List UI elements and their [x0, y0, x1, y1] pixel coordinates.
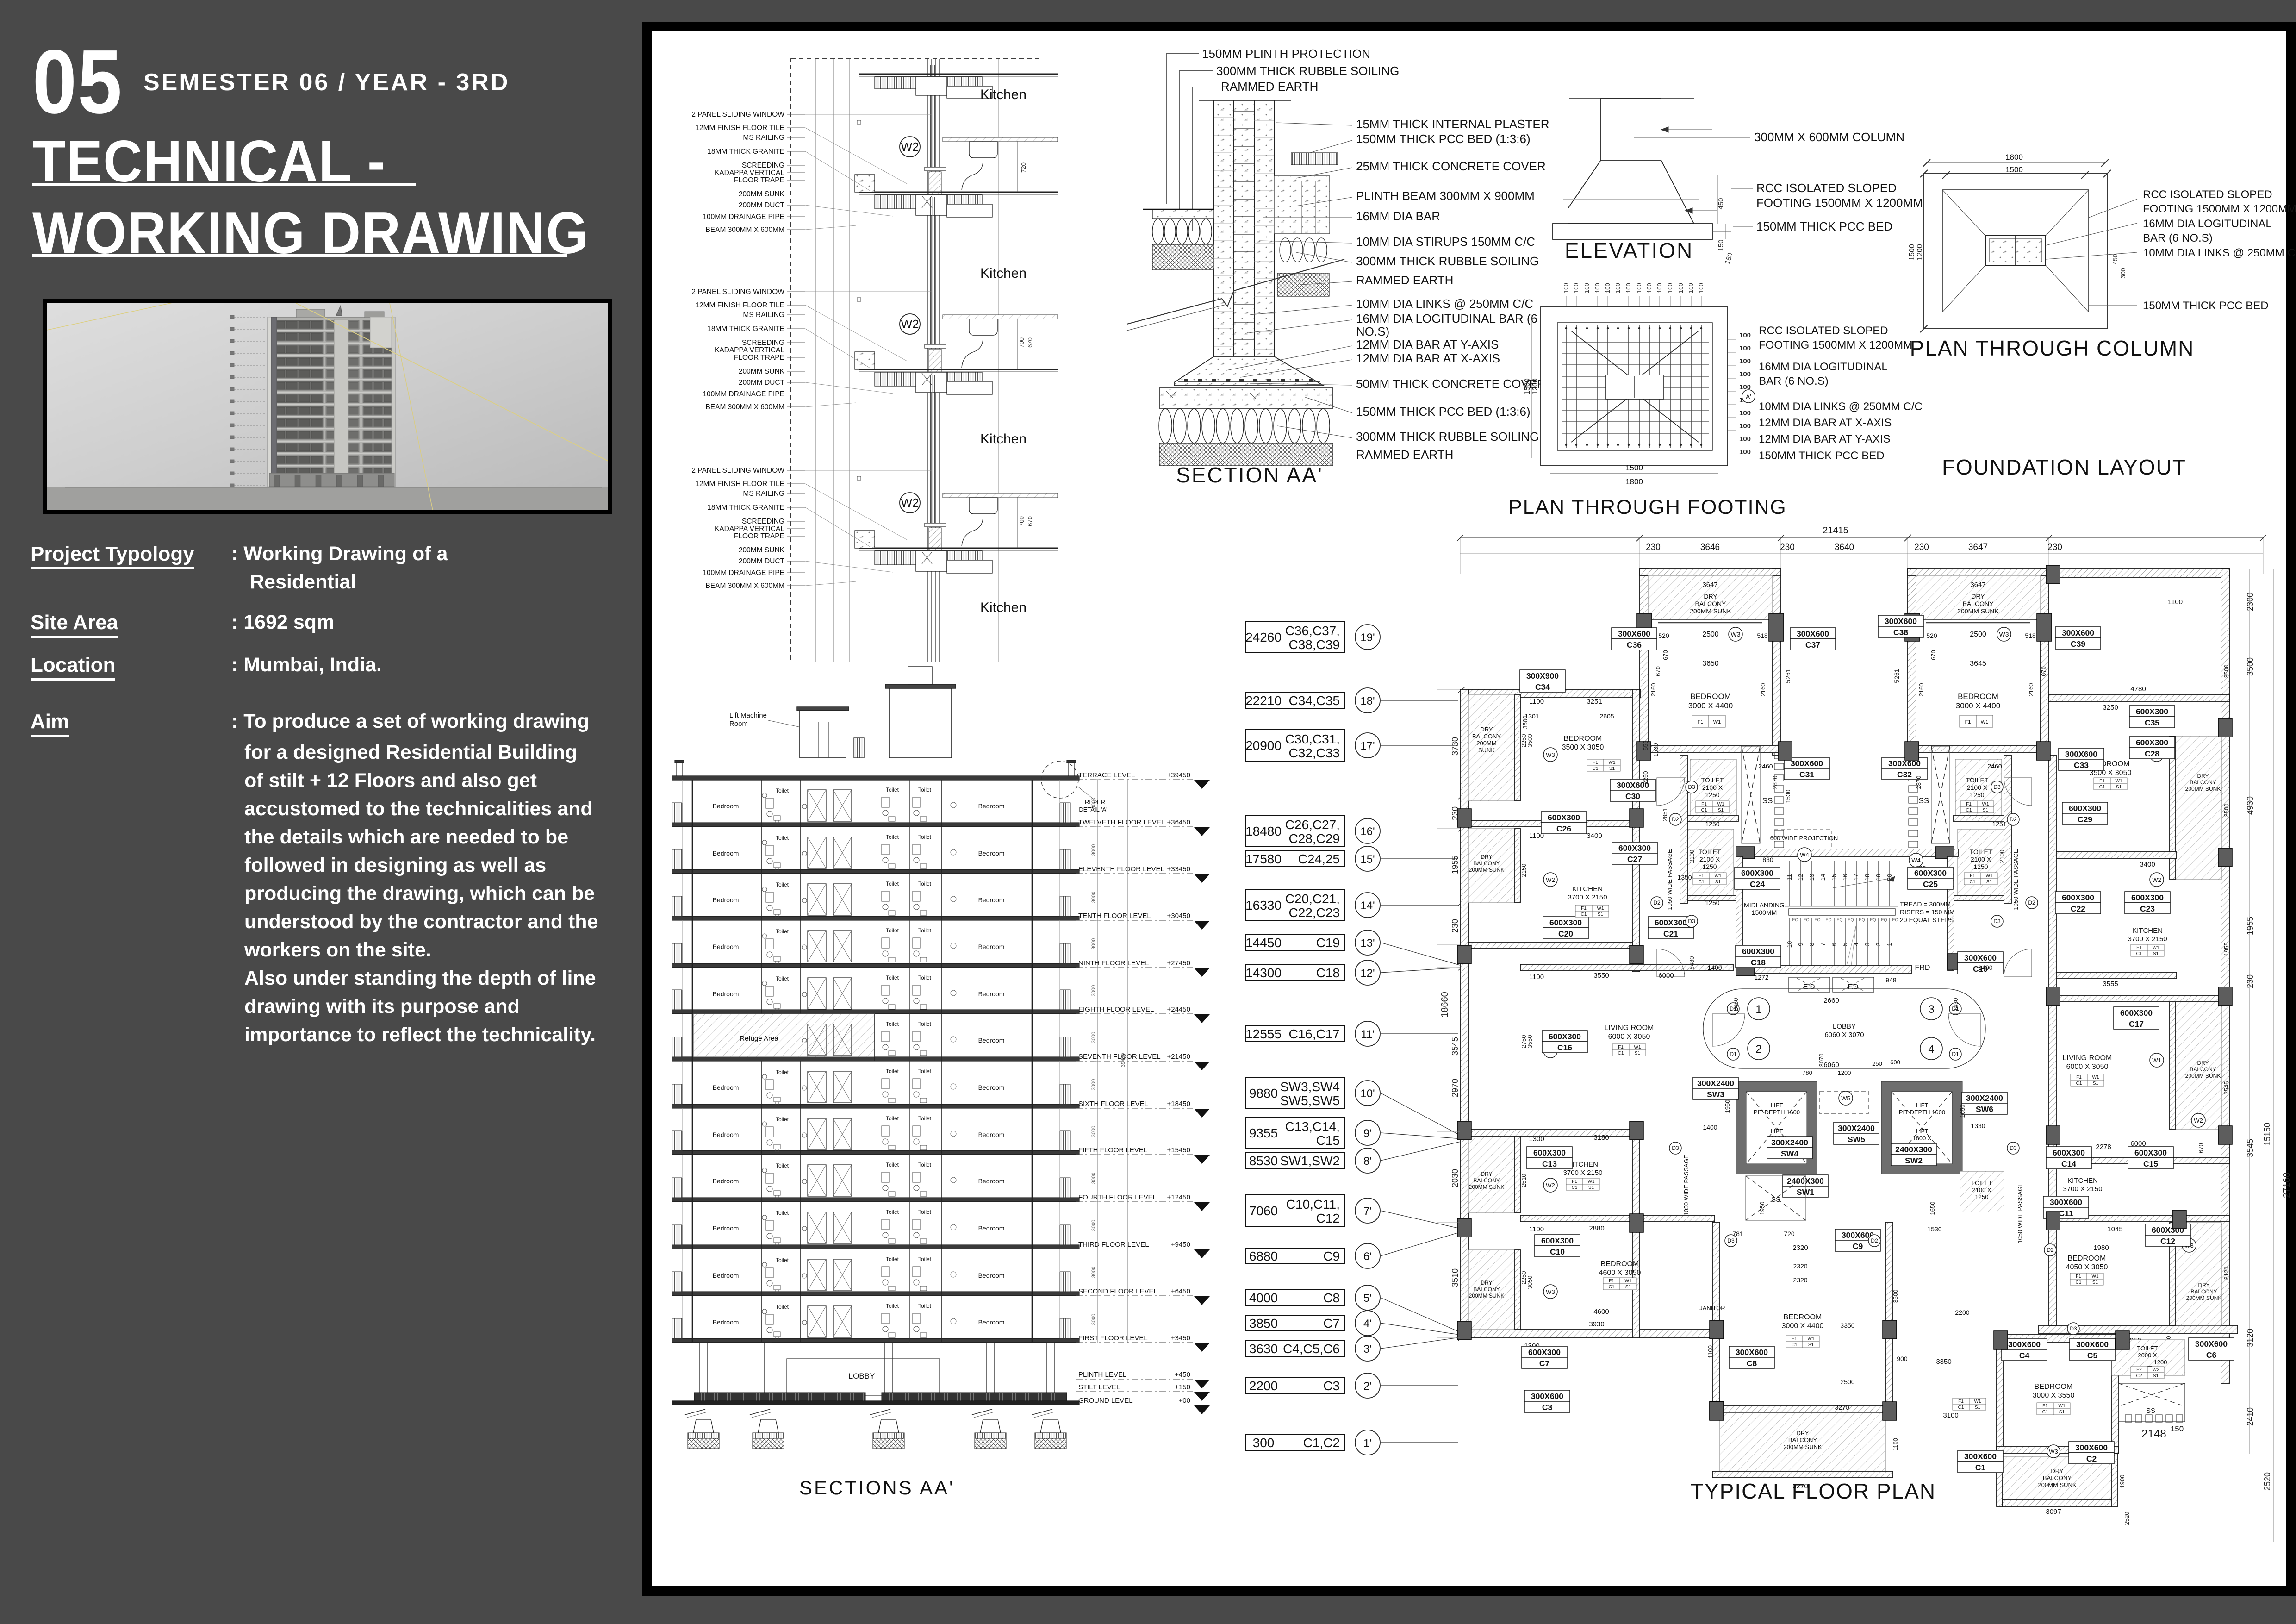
svg-text:PLAN THROUGH FOOTING: PLAN THROUGH FOOTING — [1508, 496, 1786, 518]
svg-text:300MM X 600MM COLUMN: 300MM X 600MM COLUMN — [1754, 130, 1904, 144]
svg-text:W4: W4 — [1800, 851, 1809, 858]
svg-text:100: 100 — [1604, 283, 1611, 293]
svg-text:1955: 1955 — [2246, 917, 2255, 935]
svg-text:EQ: EQ — [1881, 918, 1887, 922]
svg-text:12: 12 — [1797, 874, 1804, 881]
svg-text:25MM THICK CONCRETE COVER: 25MM THICK CONCRETE COVER — [1356, 159, 1546, 173]
svg-text:GROUND LEVEL: GROUND LEVEL — [1078, 1397, 1133, 1405]
svg-text:2450: 2450 — [1732, 998, 1739, 1012]
svg-text:LIFT: LIFT — [1771, 1128, 1783, 1135]
svg-text:F2: F2 — [2136, 1368, 2142, 1373]
svg-text:3400: 3400 — [2140, 861, 2155, 868]
svg-text:+450: +450 — [1175, 1371, 1190, 1379]
svg-text:230: 230 — [1780, 543, 1795, 552]
svg-text:C6: C6 — [2206, 1350, 2217, 1360]
svg-text:F1: F1 — [2076, 1075, 2082, 1080]
svg-text:Bedroom: Bedroom — [713, 943, 739, 950]
svg-text:3000 X 4400: 3000 X 4400 — [1782, 1322, 1824, 1330]
svg-text:1400: 1400 — [1703, 1124, 1717, 1131]
svg-text:7060: 7060 — [1249, 1204, 1278, 1218]
svg-text:C1: C1 — [1581, 912, 1587, 917]
svg-text:1530: 1530 — [1785, 790, 1792, 803]
svg-text:17580: 17580 — [1245, 852, 1282, 866]
svg-text:W1: W1 — [1808, 1337, 1815, 1342]
svg-text:C16: C16 — [1557, 1043, 1572, 1052]
svg-text:Bedroom: Bedroom — [713, 1272, 739, 1279]
svg-text:300X600: 300X600 — [1531, 1392, 1563, 1401]
svg-text:Bedroom: Bedroom — [978, 1131, 1005, 1138]
svg-text:S1: S1 — [1598, 912, 1604, 917]
svg-text:3000: 3000 — [1091, 1267, 1096, 1278]
svg-text:TOILET: TOILET — [1966, 776, 1989, 784]
svg-text:1': 1' — [1363, 1437, 1372, 1449]
svg-text:670: 670 — [1027, 516, 1033, 526]
svg-text:2880: 2880 — [1589, 1224, 1604, 1232]
svg-text:4930: 4930 — [2246, 796, 2255, 815]
svg-text:C1: C1 — [1572, 1185, 1578, 1190]
svg-text:1650: 1650 — [1959, 1105, 1966, 1118]
svg-text:3500: 3500 — [1526, 734, 1533, 748]
svg-text:C24,25: C24,25 — [1298, 852, 1340, 866]
svg-text:RCC ISOLATED SLOPED: RCC ISOLATED SLOPED — [2143, 188, 2272, 201]
svg-text:1800: 1800 — [1625, 477, 1643, 486]
svg-text:S1: S1 — [1986, 880, 1992, 885]
svg-text:Toilet: Toilet — [886, 974, 899, 981]
svg-text:W1: W1 — [2116, 779, 2122, 784]
svg-text:C1: C1 — [2042, 1410, 2048, 1415]
svg-text:2278: 2278 — [2096, 1143, 2111, 1151]
svg-text:2970: 2970 — [1450, 1079, 1460, 1097]
svg-text:S1: S1 — [2153, 1374, 2159, 1379]
svg-text:15: 15 — [1830, 874, 1837, 881]
svg-text:1100: 1100 — [1707, 1345, 1714, 1358]
svg-text:FIFTH FLOOR LEVEL: FIFTH FLOOR LEVEL — [1078, 1146, 1147, 1154]
svg-text:S1: S1 — [1588, 1185, 1594, 1190]
svg-text:3545: 3545 — [2246, 1139, 2255, 1157]
svg-text:F1: F1 — [1572, 1179, 1577, 1184]
svg-text:2160: 2160 — [1760, 683, 1767, 697]
svg-text:1050 WIDE PASSAGE: 1050 WIDE PASSAGE — [2012, 849, 2019, 910]
svg-text:S1: S1 — [1808, 1343, 1814, 1348]
svg-text:Toilet: Toilet — [776, 975, 789, 982]
svg-text:948: 948 — [1885, 976, 1897, 984]
svg-text:600X300: 600X300 — [1548, 813, 1580, 822]
svg-text:C20,C21,: C20,C21, — [1285, 892, 1340, 906]
svg-text:1100: 1100 — [2168, 598, 2183, 606]
svg-text:KITCHEN: KITCHEN — [2132, 927, 2163, 935]
svg-text:F1: F1 — [2076, 1274, 2081, 1279]
svg-text:2 PANEL SLIDING WINDOW: 2 PANEL SLIDING WINDOW — [691, 288, 784, 296]
svg-text:D3: D3 — [2010, 1145, 2017, 1151]
svg-text:3000 X 3550: 3000 X 3550 — [2033, 1392, 2075, 1399]
svg-text:1250: 1250 — [1973, 863, 1988, 870]
svg-text:S1: S1 — [1625, 1285, 1631, 1290]
svg-text:BEDROOM: BEDROOM — [1958, 692, 1998, 701]
svg-text:14300: 14300 — [1245, 966, 1282, 980]
svg-text:SW3,SW4: SW3,SW4 — [1280, 1080, 1340, 1094]
svg-text:780: 780 — [1802, 1069, 1812, 1076]
svg-text:600X300: 600X300 — [2134, 1148, 2167, 1157]
svg-text:18MM THICK GRANITE: 18MM THICK GRANITE — [707, 148, 784, 156]
svg-text:+18450: +18450 — [1167, 1100, 1190, 1108]
svg-text:3700 X 2150: 3700 X 2150 — [1563, 1169, 1602, 1177]
svg-text:E.D: E.D — [1803, 983, 1815, 991]
svg-text:C3: C3 — [1323, 1379, 1340, 1393]
svg-text:3100: 3100 — [1943, 1412, 1958, 1419]
svg-text:Kitchen: Kitchen — [980, 600, 1027, 615]
svg-text:C37: C37 — [1805, 640, 1820, 650]
svg-text:100MM DRAINAGE PIPE: 100MM DRAINAGE PIPE — [703, 213, 784, 221]
svg-text:670: 670 — [1662, 650, 1669, 660]
svg-text:1250: 1250 — [1970, 791, 1984, 799]
svg-text:C1: C1 — [2076, 1081, 2082, 1086]
svg-text:14: 14 — [1819, 874, 1826, 881]
svg-text:2100 X: 2100 X — [1967, 784, 1988, 791]
svg-text:2400X300: 2400X300 — [1895, 1145, 1932, 1154]
svg-text:2320: 2320 — [1793, 1262, 1807, 1270]
svg-text:600X300: 600X300 — [2062, 893, 2094, 902]
svg-text:5: 5 — [1842, 943, 1848, 946]
svg-text:2160: 2160 — [2028, 683, 2035, 697]
svg-text:18MM THICK GRANITE: 18MM THICK GRANITE — [707, 504, 784, 512]
svg-text:2870: 2870 — [1915, 776, 1922, 789]
svg-text:C1: C1 — [1970, 880, 1976, 885]
svg-text:DRY: DRY — [2197, 1060, 2209, 1066]
svg-text:DRY: DRY — [2197, 773, 2209, 779]
svg-text:W1: W1 — [1717, 802, 1724, 807]
svg-text:100: 100 — [1739, 409, 1751, 417]
svg-text:C1: C1 — [1958, 1405, 1964, 1410]
svg-text:100: 100 — [1739, 344, 1751, 352]
svg-text:300X2400: 300X2400 — [1838, 1124, 1875, 1133]
svg-text:450: 450 — [1717, 198, 1725, 209]
svg-text:12555: 12555 — [1245, 1027, 1282, 1041]
svg-text:1500: 1500 — [1625, 463, 1643, 472]
svg-text:SS: SS — [1919, 796, 1929, 805]
svg-text:C38,C39: C38,C39 — [1288, 637, 1340, 652]
svg-text:Bedroom: Bedroom — [978, 849, 1005, 857]
svg-text:3647: 3647 — [1970, 581, 1985, 589]
svg-text:S1: S1 — [2153, 951, 2159, 956]
svg-text:720: 720 — [1020, 162, 1027, 173]
svg-text:D3: D3 — [1993, 918, 2001, 924]
svg-text:W3: W3 — [1546, 1288, 1555, 1295]
svg-text:200MM SUNK: 200MM SUNK — [2038, 1481, 2076, 1488]
svg-text:THIRD FLOOR LEVEL: THIRD FLOOR LEVEL — [1078, 1241, 1149, 1249]
svg-text:2100 X: 2100 X — [1971, 856, 1991, 863]
svg-text:W4: W4 — [1911, 857, 1921, 864]
svg-text:10MM DIA LINKS @ 250MM C/C: 10MM DIA LINKS @ 250MM C/C — [1759, 400, 1923, 413]
svg-text:D3: D3 — [2070, 1325, 2077, 1332]
svg-text:14': 14' — [1360, 899, 1375, 912]
svg-text:C32: C32 — [1897, 770, 1912, 779]
svg-text:Toilet: Toilet — [776, 881, 789, 888]
svg-text:3650: 3650 — [1702, 660, 1719, 668]
svg-text:300X600: 300X600 — [2050, 1198, 2082, 1207]
svg-text:Toilet: Toilet — [776, 928, 789, 935]
svg-text:250: 250 — [1872, 1060, 1882, 1067]
svg-text:555: 555 — [1642, 740, 1649, 750]
svg-text:DRY: DRY — [2198, 1282, 2209, 1288]
svg-text:13: 13 — [1808, 874, 1815, 881]
svg-text:BALCONY: BALCONY — [1473, 860, 1500, 867]
svg-text:C7: C7 — [1323, 1316, 1340, 1330]
svg-text:EQ: EQ — [1859, 918, 1865, 922]
svg-text:C22,C23: C22,C23 — [1288, 906, 1340, 920]
svg-text:300X2400: 300X2400 — [1966, 1093, 2003, 1103]
svg-text:MS RAILING: MS RAILING — [743, 134, 784, 142]
svg-text:TOILET: TOILET — [1971, 1180, 1992, 1187]
svg-text:C17: C17 — [2129, 1019, 2144, 1029]
svg-text:C1: C1 — [1975, 1463, 1986, 1472]
svg-text:Bedroom: Bedroom — [978, 1177, 1005, 1185]
svg-text:LOBBY: LOBBY — [1833, 1023, 1856, 1031]
svg-text:S1: S1 — [2059, 1410, 2065, 1415]
svg-text:2200: 2200 — [1249, 1379, 1278, 1393]
svg-text:SW6: SW6 — [1976, 1105, 1993, 1114]
svg-text:SW5: SW5 — [1848, 1135, 1865, 1144]
svg-text:18': 18' — [1360, 695, 1375, 707]
svg-text:2410: 2410 — [2246, 1407, 2255, 1426]
svg-text:Toilet: Toilet — [776, 1210, 789, 1216]
svg-text:C2: C2 — [2136, 1374, 2142, 1379]
svg-text:C3: C3 — [1542, 1403, 1553, 1412]
svg-text:1251: 1251 — [1992, 820, 2006, 828]
svg-text:+9450: +9450 — [1171, 1241, 1190, 1249]
svg-text:MIDLANDING: MIDLANDING — [1744, 901, 1785, 909]
svg-text:300X600: 300X600 — [2065, 750, 2097, 759]
svg-text:6060 X 3070: 6060 X 3070 — [1824, 1031, 1864, 1039]
svg-text:D2: D2 — [2028, 899, 2035, 906]
svg-text:Toilet: Toilet — [886, 1068, 899, 1074]
svg-text:600X300: 600X300 — [1533, 1148, 1566, 1157]
svg-text:22210: 22210 — [1245, 693, 1282, 708]
svg-text:1430: 1430 — [1952, 998, 1959, 1012]
svg-text:1300: 1300 — [1529, 1135, 1544, 1143]
svg-text:Bedroom: Bedroom — [978, 802, 1005, 810]
svg-text:17': 17' — [1360, 740, 1375, 752]
svg-text:C10,C11,: C10,C11, — [1286, 1197, 1340, 1212]
svg-text:C14: C14 — [2061, 1159, 2076, 1168]
svg-text:16': 16' — [1360, 825, 1375, 838]
svg-text:C4: C4 — [2019, 1351, 2030, 1360]
svg-text:ELEVATION: ELEVATION — [1565, 238, 1693, 262]
svg-text:Bedroom: Bedroom — [713, 1131, 739, 1138]
svg-text:12MM DIA BAR AT Y-AXIS: 12MM DIA BAR AT Y-AXIS — [1356, 337, 1499, 351]
svg-text:W3: W3 — [1999, 631, 2009, 638]
svg-text:6060: 6060 — [1823, 1061, 1839, 1069]
svg-text:300: 300 — [2119, 268, 2127, 279]
svg-text:Toilet: Toilet — [918, 834, 932, 840]
svg-text:12MM FINISH FLOOR TILE: 12MM FINISH FLOOR TILE — [695, 124, 784, 132]
svg-text:4': 4' — [1363, 1318, 1372, 1330]
svg-text:Toilet: Toilet — [886, 881, 899, 887]
svg-text:520: 520 — [1658, 632, 1669, 639]
svg-text:C10: C10 — [1550, 1247, 1565, 1256]
svg-text:W1: W1 — [1982, 802, 1989, 807]
svg-text:KADAPPA VERTICAL: KADAPPA VERTICAL — [715, 169, 784, 177]
svg-text:C7: C7 — [1539, 1359, 1549, 1368]
svg-text:3730: 3730 — [1450, 737, 1460, 756]
svg-text:PLAN THROUGH COLUMN: PLAN THROUGH COLUMN — [1910, 336, 2195, 360]
svg-text:1250: 1250 — [1705, 791, 1719, 799]
svg-text:W1: W1 — [1986, 874, 1993, 879]
svg-text:C30: C30 — [1625, 792, 1640, 801]
svg-text:C1: C1 — [1618, 1051, 1624, 1056]
svg-text:100: 100 — [1625, 283, 1632, 293]
svg-text:DRY: DRY — [1480, 726, 1493, 733]
svg-text:2660: 2660 — [1823, 997, 1839, 1005]
svg-text:Toilet: Toilet — [776, 787, 789, 794]
svg-text:Refuge Area: Refuge Area — [740, 1035, 778, 1043]
svg-text:C22: C22 — [2071, 904, 2085, 913]
svg-text:200MM: 200MM — [1476, 740, 1496, 747]
svg-text:6': 6' — [1363, 1250, 1372, 1263]
svg-text:9: 9 — [1797, 943, 1804, 946]
svg-text:3251: 3251 — [1587, 698, 1602, 706]
svg-text:16MM DIA BAR: 16MM DIA BAR — [1356, 209, 1440, 223]
svg-text:12': 12' — [1360, 967, 1375, 980]
svg-text:EQ: EQ — [1848, 918, 1854, 922]
svg-text:C13: C13 — [1542, 1159, 1557, 1168]
svg-text:D2: D2 — [2047, 1247, 2054, 1253]
svg-text:W3: W3 — [1546, 751, 1555, 758]
svg-text:3645: 3645 — [1970, 660, 1986, 668]
svg-text:C35: C35 — [2145, 718, 2159, 727]
svg-text:W1: W1 — [1609, 760, 1616, 765]
svg-text:C23: C23 — [2140, 904, 2155, 913]
svg-text:50MM THICK CONCRETE COVER: 50MM THICK CONCRETE COVER — [1356, 377, 1546, 391]
svg-text:+21450: +21450 — [1167, 1053, 1190, 1061]
svg-text:C34: C34 — [1535, 682, 1550, 692]
svg-text:200MM SUNK: 200MM SUNK — [1957, 607, 1999, 615]
svg-text:100: 100 — [1739, 331, 1751, 339]
svg-text:15MM THICK INTERNAL PLASTER: 15MM THICK INTERNAL PLASTER — [1356, 117, 1549, 131]
svg-text:W1: W1 — [1981, 719, 1989, 725]
svg-text:BALCONY: BALCONY — [2190, 1288, 2217, 1295]
svg-text:BALCONY: BALCONY — [2190, 1066, 2216, 1073]
svg-text:3050: 3050 — [1526, 1276, 1533, 1289]
svg-text:518: 518 — [2025, 632, 2036, 639]
svg-text:S1: S1 — [2092, 1280, 2098, 1285]
svg-text:Toilet: Toilet — [776, 1116, 789, 1123]
svg-text:FOOTING 1500MM X 1200MM: FOOTING 1500MM X 1200MM — [2143, 203, 2296, 215]
svg-text:FLOOR TRAPE: FLOOR TRAPE — [734, 176, 784, 184]
svg-text:600X300: 600X300 — [2131, 893, 2164, 902]
svg-text:Toilet: Toilet — [886, 1209, 899, 1215]
svg-text:700: 700 — [1018, 516, 1025, 526]
svg-text:9': 9' — [1363, 1127, 1372, 1140]
svg-text:200MM DUCT: 200MM DUCT — [739, 379, 785, 387]
svg-text:2200: 2200 — [1955, 1309, 1969, 1316]
svg-text:Toilet: Toilet — [918, 881, 932, 887]
svg-text:W1: W1 — [1625, 1279, 1632, 1284]
svg-text:C36,C37,: C36,C37, — [1285, 624, 1340, 638]
svg-text:F1: F1 — [1966, 802, 1972, 807]
svg-text:W2: W2 — [901, 317, 919, 331]
svg-text:17: 17 — [1853, 874, 1860, 881]
svg-text:100MM DRAINAGE PIPE: 100MM DRAINAGE PIPE — [703, 390, 784, 398]
svg-text:F1: F1 — [1792, 1337, 1797, 1342]
svg-text:BEAM 300MM X 600MM: BEAM 300MM X 600MM — [705, 403, 784, 411]
svg-text:F1: F1 — [2042, 1404, 2048, 1409]
svg-text:FOURTH FLOOR LEVEL: FOURTH FLOOR LEVEL — [1078, 1193, 1157, 1201]
svg-text:300MM THICK RUBBLE SOILING: 300MM THICK RUBBLE SOILING — [1216, 64, 1399, 78]
svg-text:11: 11 — [1786, 874, 1793, 881]
svg-text:100: 100 — [1739, 448, 1751, 456]
svg-text:SW1,SW2: SW1,SW2 — [1280, 1154, 1340, 1168]
svg-text:600: 600 — [1890, 1059, 1900, 1066]
svg-text:W1: W1 — [1634, 1045, 1641, 1050]
svg-text:REFER: REFER — [1085, 799, 1105, 806]
svg-text:Bedroom: Bedroom — [978, 1318, 1005, 1326]
svg-text:3700 X 2150: 3700 X 2150 — [1568, 893, 1607, 901]
svg-text:F1: F1 — [1699, 874, 1704, 879]
svg-text:Bedroom: Bedroom — [713, 990, 739, 998]
svg-text:BALCONY: BALCONY — [2190, 779, 2216, 786]
svg-text:3000: 3000 — [1091, 1032, 1096, 1043]
svg-text:3545: 3545 — [2223, 1081, 2230, 1095]
svg-text:W2: W2 — [2153, 1368, 2159, 1373]
svg-text:SEVENTH FLOOR LEVEL: SEVENTH FLOOR LEVEL — [1078, 1053, 1161, 1061]
svg-text:+00: +00 — [1179, 1397, 1190, 1405]
svg-text:24260: 24260 — [1245, 630, 1282, 644]
svg-text:2150: 2150 — [1520, 864, 1527, 877]
svg-text:SS: SS — [1762, 796, 1773, 805]
svg-text:3000: 3000 — [1091, 1173, 1096, 1184]
svg-text:PLINTH BEAM 300MM X 900MM: PLINTH BEAM 300MM X 900MM — [1356, 189, 1535, 203]
svg-text:2520: 2520 — [2263, 1472, 2272, 1491]
svg-text:18480: 18480 — [1245, 824, 1282, 838]
svg-text:2 PANEL SLIDING WINDOW: 2 PANEL SLIDING WINDOW — [691, 467, 784, 475]
svg-text:3647: 3647 — [1702, 581, 1717, 589]
svg-text:100: 100 — [1739, 357, 1751, 365]
svg-text:200MM SUNK: 200MM SUNK — [2186, 1295, 2222, 1301]
svg-text:Toilet: Toilet — [918, 927, 932, 934]
svg-text:C12: C12 — [2160, 1237, 2175, 1246]
svg-text:600 WIDE PROJECTION: 600 WIDE PROJECTION — [1770, 835, 1838, 842]
svg-text:300X2400: 300X2400 — [1771, 1138, 1808, 1147]
svg-text:W1: W1 — [1974, 1399, 1981, 1404]
svg-text:600X300: 600X300 — [1655, 918, 1687, 927]
svg-text:MS RAILING: MS RAILING — [743, 490, 784, 498]
svg-text:150: 150 — [2171, 1424, 2184, 1433]
svg-text:8': 8' — [1363, 1155, 1372, 1168]
svg-text:C15: C15 — [1316, 1133, 1340, 1148]
svg-text:3070: 3070 — [1818, 1054, 1825, 1067]
svg-text:S1: S1 — [1609, 766, 1615, 771]
svg-text:100: 100 — [1636, 283, 1643, 293]
svg-text:LIVING ROOM: LIVING ROOM — [1605, 1024, 1654, 1032]
svg-text:F1: F1 — [2136, 945, 2142, 950]
svg-text:3270: 3270 — [1835, 1404, 1849, 1411]
svg-text:16: 16 — [1842, 874, 1848, 881]
svg-text:3000 X 4400: 3000 X 4400 — [1688, 701, 1733, 710]
svg-text:Bedroom: Bedroom — [978, 1037, 1005, 1044]
svg-text:+30450: +30450 — [1167, 912, 1190, 920]
svg-text:Kitchen: Kitchen — [980, 87, 1027, 102]
svg-text:C20: C20 — [1558, 929, 1573, 938]
svg-text:MS RAILING: MS RAILING — [743, 311, 784, 319]
svg-text:3120: 3120 — [2246, 1329, 2255, 1347]
svg-text:520: 520 — [1926, 632, 1937, 639]
svg-text:S1: S1 — [2116, 785, 2122, 790]
svg-text:1045: 1045 — [2107, 1225, 2122, 1233]
svg-text:Bedroom: Bedroom — [978, 1084, 1005, 1091]
svg-text:6: 6 — [1830, 943, 1837, 946]
svg-text:720: 720 — [1784, 1230, 1795, 1237]
svg-text:100: 100 — [1646, 283, 1653, 293]
